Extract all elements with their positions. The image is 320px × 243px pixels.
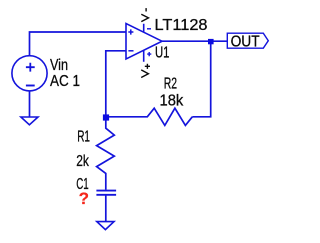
svg-text:R2: R2: [164, 75, 177, 92]
svg-text:LT1128: LT1128: [155, 17, 208, 34]
svg-text:Vin: Vin: [50, 57, 68, 74]
svg-text:R1: R1: [77, 129, 90, 146]
svg-text:OUT: OUT: [231, 33, 260, 50]
svg-text:AC 1: AC 1: [50, 73, 80, 90]
svg-text:U1: U1: [155, 45, 170, 62]
svg-text:?: ?: [79, 189, 89, 208]
svg-text:2k: 2k: [76, 153, 89, 170]
svg-text:18k: 18k: [160, 92, 184, 109]
